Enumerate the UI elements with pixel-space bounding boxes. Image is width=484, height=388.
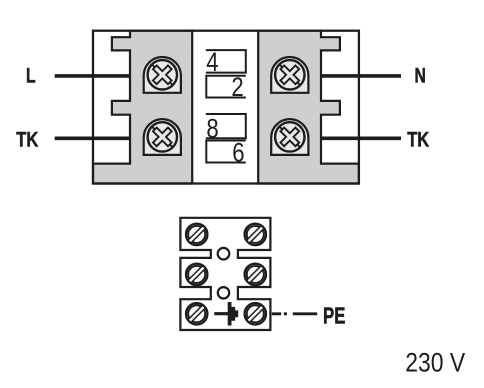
svg-text:N: N xyxy=(415,63,426,87)
left contact housing (gray) xyxy=(93,31,192,184)
guide hole upper xyxy=(218,248,230,260)
right contact housing (gray) xyxy=(258,31,359,184)
svg-text:2: 2 xyxy=(231,73,243,103)
screw terminal L xyxy=(144,57,181,93)
terminal 2 box xyxy=(206,76,246,98)
svg-text:TK: TK xyxy=(16,128,38,152)
svg-text:L: L xyxy=(26,63,36,87)
screw terminal TK right xyxy=(271,119,308,155)
screw terminal row2 left xyxy=(186,264,207,285)
svg-text:4: 4 xyxy=(206,48,218,78)
svg-text:6: 6 xyxy=(232,138,244,168)
terminal 8 box xyxy=(206,114,246,138)
screw terminal TK left xyxy=(144,119,181,155)
wire PE (dash-dot) xyxy=(272,312,317,315)
screw terminal row1 right xyxy=(245,224,266,245)
svg-text:PE: PE xyxy=(323,304,345,329)
wire TK left xyxy=(55,137,131,141)
screw terminal row3 right xyxy=(245,303,266,324)
screw terminal row3 left xyxy=(186,303,207,324)
terminal 6 box xyxy=(206,141,246,163)
terminal block X1 outer case xyxy=(93,31,359,184)
screw terminal N xyxy=(271,57,308,93)
guide hole lower xyxy=(218,287,229,298)
screw terminal row1 left xyxy=(186,224,207,245)
PE clamp symbol xyxy=(214,302,238,326)
terminal 4 box xyxy=(206,50,246,73)
screw terminal row2 right xyxy=(245,264,266,285)
svg-text:230 V: 230 V xyxy=(405,348,465,378)
wire N xyxy=(320,74,401,78)
svg-text:TK: TK xyxy=(407,128,429,152)
wire L xyxy=(55,74,131,78)
plug connector housing (lower block) xyxy=(180,218,270,330)
wire TK right xyxy=(320,137,401,141)
